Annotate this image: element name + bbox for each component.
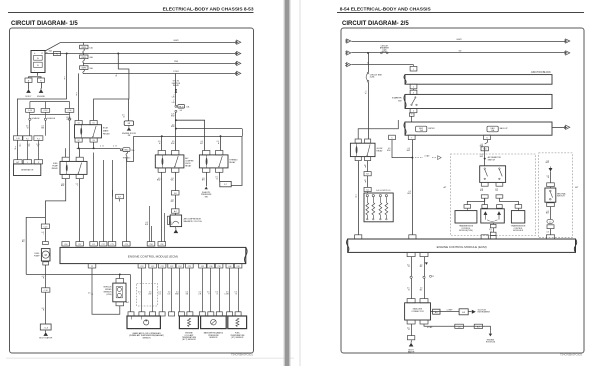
bar1 bottom pin [410, 84, 417, 89]
neutral pin 3 [547, 225, 554, 229]
wire neutral top [550, 171, 552, 182]
svg-text:STARTER: STARTER [392, 97, 402, 100]
svg-text:C-16: C-16 [28, 110, 32, 112]
fuse F2 CMPS 40A [83, 54, 85, 56]
connector A-4 [171, 209, 179, 213]
arrow W1 [235, 40, 241, 44]
svg-text:EARTH: EARTH [408, 351, 415, 354]
svg-text:60WR: 60WR [457, 39, 463, 41]
junction bus 4B [93, 147, 95, 149]
ecm2 top pin 5 [546, 235, 554, 239]
ECM main relay X-4 [75, 125, 102, 138]
connector H-2 [41, 109, 50, 113]
arrow R-in2 [345, 51, 351, 55]
wire engine room JB drop [128, 99, 130, 121]
mode pin R [497, 205, 503, 209]
svg-text:JUNCTION BLOCK: JUNCTION BLOCK [531, 72, 552, 74]
svg-text:C22: C22 [160, 266, 163, 268]
svg-text:F-7: F-7 [224, 184, 227, 186]
vss bottom pin [116, 302, 124, 306]
generator terminal strip [14, 160, 22, 164]
svg-text:PUMP: PUMP [34, 256, 40, 258]
svg-text:C44: C44 [228, 266, 231, 268]
svg-text:X2: X2 [78, 140, 80, 142]
wire neutral to ecm [550, 229, 552, 235]
svg-text:C13: C13 [151, 266, 154, 268]
wire relay pin3 down [78, 142, 80, 148]
svg-text:C94: C94 [64, 244, 67, 246]
wire ecm feeds mid [103, 160, 105, 242]
svg-text:C59: C59 [160, 244, 163, 246]
A T dashed box [450, 154, 535, 236]
svg-text:MODULE B: MODULE B [513, 230, 524, 232]
svg-text:RELAY: RELAY [52, 167, 59, 170]
wire bar1-bar2 [413, 89, 415, 90]
svg-text:CMPS: CMPS [81, 57, 87, 59]
wire W4 [83, 73, 237, 75]
wire dlc right [431, 311, 460, 313]
svg-text:C74: C74 [125, 244, 128, 246]
left diagram border [10, 28, 254, 353]
svg-text:W/L: W/L [171, 180, 174, 182]
ECM bottom pin C34 [207, 264, 215, 268]
wire circle2 down [45, 120, 47, 135]
right page header rule [337, 12, 584, 14]
svg-text:C2: C2 [91, 266, 93, 268]
svg-text:ECM: ECM [103, 127, 108, 129]
arrow R-in3 [345, 63, 351, 67]
fuel pump pin top [43, 242, 49, 245]
ECT sensor box [179, 316, 198, 329]
wire cb drop 2 [368, 82, 370, 139]
fuse EB-10 10A [175, 105, 177, 107]
svg-text:A-2: A-2 [126, 301, 129, 304]
svg-text:FL: FL [37, 58, 39, 60]
connector A-7 [116, 194, 124, 198]
wire bar2-bar3 [413, 113, 415, 117]
wire AC out2 [175, 172, 177, 190]
ECM top pin C57 [76, 242, 84, 246]
svg-text:L: L [140, 293, 141, 295]
fusible link FL box [54, 51, 61, 55]
ECM bottom pin C45 [234, 264, 242, 268]
wire FP out1 [45, 179, 65, 224]
wire F4 down [38, 140, 40, 159]
wire AC pin feeds [161, 136, 163, 150]
dlc pin 4 [420, 320, 428, 324]
AC relay pin1 [158, 151, 165, 155]
ECM box [60, 247, 246, 263]
see arrow [472, 310, 476, 314]
svg-text:C-16: C-16 [68, 110, 72, 112]
ECM bar right page [348, 239, 576, 252]
connector dlc a [433, 309, 440, 314]
wire mode to ecm [493, 228, 495, 232]
connector C-16 fpb [42, 288, 50, 292]
svg-text:B/L: B/L [22, 241, 25, 243]
wire thermo out1 [206, 172, 208, 186]
svg-text:(ECT) SENSOR: (ECT) SENSOR [182, 339, 196, 341]
wire ecm feed 58 [151, 226, 153, 242]
glow relay pin2 [365, 139, 371, 143]
svg-text:C58: C58 [149, 244, 152, 246]
wire v fuse3 to relay [78, 73, 80, 120]
sensor pin row [128, 312, 134, 316]
wire tcm feed [467, 208, 469, 210]
ecm2 top pin 1 [355, 235, 362, 239]
wire fpb down [45, 292, 47, 324]
ecm2 top pin 3 [481, 235, 488, 239]
bar2 top pin [410, 90, 417, 94]
svg-text:C-16: C-16 [44, 110, 48, 112]
svg-text:C33: C33 [201, 266, 204, 268]
wire v B-5 drop [94, 54, 129, 121]
mode out pin [490, 224, 496, 227]
junction w2-b [117, 53, 119, 55]
junction load [411, 157, 413, 159]
neutral pin top [547, 183, 555, 187]
svg-text:C35: C35 [217, 266, 220, 268]
connector H-7 [364, 172, 371, 176]
svg-text:S/GAUGE: S/GAUGE [32, 117, 41, 120]
svg-text:L: L [77, 185, 78, 187]
circuit breaker [381, 52, 383, 54]
ECM bottom pin C13 [149, 264, 157, 268]
wire F8 to A4 [175, 195, 177, 209]
wire clutch area drop a [149, 206, 151, 242]
inhibitor pin R [496, 182, 503, 186]
inhibitor pin L [481, 182, 488, 186]
compressor clutch coil mark [167, 216, 169, 224]
svg-text:60WR: 60WR [174, 40, 180, 42]
wire ecm feed 59 stub [161, 172, 163, 241]
joint connector [40, 324, 51, 330]
glow relay loop [358, 120, 398, 139]
relay X-4 pin2 [90, 121, 97, 125]
svg-text:SENSOR: SENSOR [143, 337, 152, 339]
svg-text:FL: FL [37, 65, 39, 67]
inhibitor pin L2 [481, 195, 488, 198]
wire dlc 2 [424, 257, 426, 299]
svg-text:(VSS): (VSS) [106, 294, 111, 296]
inline circle 3 [69, 112, 71, 118]
fuse backup in bar3 [487, 126, 498, 132]
gutter light line [300, 0, 301, 366]
wire v battery feed down [66, 54, 68, 100]
connector H-3 [65, 109, 74, 113]
ECM top pin C58 [147, 242, 155, 246]
svg-text:4: 4 [413, 111, 414, 113]
ECM top pin C74 [123, 242, 131, 246]
bar1 top pin [410, 66, 417, 71]
svg-text:3-6: 3-6 [180, 110, 183, 112]
svg-text:(CB): (CB) [382, 49, 386, 51]
junction w2-a [66, 53, 68, 55]
inline circle dlc2 [423, 276, 425, 278]
TCM box [455, 211, 477, 223]
thermo relay pin4 [216, 168, 223, 172]
wire W1 main feed [61, 42, 237, 44]
wire to engine ground [41, 82, 43, 88]
svg-text:MODULE(TCM): MODULE(TCM) [459, 230, 473, 232]
svg-text:B/L: B/L [420, 266, 423, 268]
svg-text:4: 4 [113, 146, 114, 148]
svg-text:C34: C34 [209, 266, 212, 268]
wire W2 [45, 53, 237, 55]
fuse F3 CMPS 30A [83, 63, 85, 65]
AC relay pin2 [172, 151, 179, 155]
svg-text:CMPS: CMPS [81, 47, 87, 49]
wire dlc right bus [424, 324, 490, 331]
svg-text:1: 1 [413, 69, 414, 71]
ground body earth [45, 330, 47, 331]
svg-text:G-1: G-1 [366, 190, 369, 192]
svg-text:SW: SW [398, 100, 401, 102]
wire dlc gnd [411, 324, 413, 336]
connector F-7 [220, 181, 231, 186]
svg-text:C23: C23 [170, 266, 173, 268]
ECM top pin C73 [108, 242, 116, 246]
load dashed arrow [415, 157, 423, 159]
junction bus a [161, 135, 163, 137]
MAF IAT sensor box [127, 316, 160, 329]
wire vss return [92, 268, 120, 314]
wire FP out2 [79, 179, 81, 242]
svg-text:B/W: B/W [61, 185, 65, 187]
svg-text:J-4: J-4 [458, 326, 460, 328]
glow relay pin3 [355, 157, 361, 161]
svg-text:MAGNETIC CLUTCH: MAGNETIC CLUTCH [184, 220, 203, 223]
svg-text:SENSOR: SENSOR [209, 337, 218, 339]
svg-text:SW: SW [205, 196, 208, 198]
AC relay pin3 [158, 168, 165, 172]
connector C-16 fp [41, 224, 49, 228]
svg-text:7: 7 [411, 138, 412, 140]
svg-text:B/W: B/W [157, 180, 161, 182]
svg-text:C-10: C-10 [16, 138, 20, 140]
svg-text:EB-6: EB-6 [124, 150, 128, 152]
svg-text:MAIN: MAIN [103, 129, 109, 132]
wire neutral down [550, 207, 552, 220]
ecm2 bottom pin 1 [407, 252, 415, 256]
svg-text:SWITCH: SWITCH [557, 196, 565, 198]
wire jog ST b [176, 128, 242, 130]
svg-text:RELAY: RELAY [173, 84, 180, 87]
junction ST b [175, 128, 177, 130]
AC compressor relay [155, 155, 184, 168]
svg-text:B/L: B/L [420, 289, 423, 291]
svg-text:B/W: B/W [407, 193, 411, 195]
bar3 drop pin a [389, 135, 396, 139]
svg-text:C71: C71 [92, 244, 95, 246]
svg-text:5: 5 [411, 114, 412, 116]
svg-text:COMP: COMP [447, 309, 453, 311]
circuit breaker 2 [367, 72, 369, 74]
shield dashed box [137, 283, 158, 306]
wire glow out right [367, 161, 369, 172]
wire AC out1 [161, 172, 163, 241]
ground clutch [175, 227, 177, 229]
neutral pin bottom [547, 203, 555, 207]
wire circle1 down [29, 120, 31, 135]
arrow W3 [235, 61, 241, 65]
ECM bottom pin C33 [199, 264, 207, 268]
bar3 drop pin c [484, 135, 491, 139]
svg-text:2: 2 [413, 87, 414, 89]
wire A4 to clutch [175, 213, 177, 215]
svg-text:12: 12 [432, 276, 434, 278]
wire fp motor down [45, 265, 47, 288]
svg-text:A-4: A-4 [174, 210, 177, 213]
svg-text:B/W: B/W [171, 126, 175, 128]
svg-text:B/W: B/W [171, 143, 175, 145]
wire jog to x204 [176, 120, 205, 150]
wire bus to FP relay [79, 148, 81, 157]
TCM2 box [511, 211, 524, 223]
wire sensor drop 5 [179, 268, 181, 312]
inline circle dlc1 [410, 276, 412, 278]
left page bottom shadow [6, 358, 294, 359]
connector G-1 [364, 187, 371, 191]
bar3 drop pin b [408, 135, 415, 139]
fuel pump motor [41, 249, 50, 261]
ECM bottom pin C44 [226, 264, 234, 268]
wire dlc 1 [411, 257, 413, 299]
connector T-10 [481, 147, 488, 151]
svg-text:1.25BY: 1.25BY [173, 71, 180, 73]
svg-text:C72: C72 [101, 244, 104, 246]
ECM bottom pin C25 [186, 264, 194, 268]
inhibitor switch box [480, 166, 506, 183]
ECM bottom pin C35 [215, 264, 223, 268]
svg-text:ROOM J/B: ROOM J/B [486, 342, 496, 344]
AC relay pin4 [172, 168, 179, 172]
svg-text:B-9: B-9 [477, 326, 480, 328]
svg-text:CONNECTOR: CONNECTOR [411, 311, 424, 313]
connector row feed wires [29, 102, 31, 109]
wire a7 stub [112, 190, 114, 197]
wire H7 to G1 [367, 176, 369, 188]
wire relay pin4 down [93, 142, 95, 148]
svg-text:S/GAUGE: S/GAUGE [47, 117, 56, 120]
fuse F1 CMPS 10A [83, 42, 85, 45]
svg-text:RELAY: RELAY [185, 164, 192, 167]
connector dlc c [455, 324, 464, 328]
svg-text:G/W: G/W [169, 224, 173, 226]
arrow bar3 out [564, 125, 570, 129]
svg-text:RELAY: RELAY [229, 161, 236, 164]
fuel pump pin bottom [43, 262, 49, 265]
wire inh R branch [499, 198, 518, 204]
thermo relay pin2 [216, 151, 223, 155]
svg-text:G-6 GLOW PLUG: G-6 GLOW PLUG [376, 190, 391, 192]
wire load merge [392, 140, 412, 158]
M T dashed box [539, 153, 573, 238]
wire R3 [351, 64, 413, 66]
wire bar3 out right [552, 127, 566, 129]
wire clutch area drop b [164, 213, 166, 242]
svg-text:12: 12 [41, 53, 43, 55]
fuse box F-5 [23, 136, 32, 141]
dlc pin 1 [407, 299, 415, 303]
ecm2 top pin 2 [409, 235, 416, 239]
svg-text:8: 8 [487, 138, 488, 140]
wire R2 [351, 52, 565, 54]
ECM top pin C72 [99, 242, 107, 246]
svg-text:B/W: B/W [175, 293, 179, 295]
wire bus right drop [232, 136, 243, 185]
svg-text:C57: C57 [78, 244, 81, 246]
svg-text:TS4O70EHOFO3O1: TS4O70EHOFO3O1 [231, 353, 254, 356]
vss top pin [116, 279, 124, 284]
inline circle 2 [45, 112, 47, 118]
svg-text:C45: C45 [236, 266, 239, 268]
junction block bar1 [405, 75, 552, 85]
wire sensor drop 8 [210, 268, 212, 312]
terminal B [25, 78, 32, 82]
svg-text:X3: X3 [93, 140, 95, 142]
arrow W4 [235, 71, 241, 75]
svg-text:B-8: B-8 [462, 312, 465, 314]
wire circle3 down [69, 120, 71, 157]
fuel pump relay pins bottom [62, 174, 69, 178]
wire sensor drop 10 [229, 268, 231, 312]
svg-text:C73: C73 [110, 244, 113, 246]
ECM bottom pin C24 [176, 264, 184, 268]
wire F5 down [27, 140, 29, 159]
glow plug 1 [366, 195, 368, 197]
svg-text:A-7: A-7 [118, 196, 121, 199]
inline circle 1 [29, 112, 31, 118]
svg-text:AIR COMPRESSOR: AIR COMPRESSOR [184, 217, 202, 220]
fuse box F-4 [34, 136, 43, 141]
wire sensor drop 4 [171, 268, 173, 312]
book gutter shade [284, 0, 285, 366]
svg-text:M: M [45, 253, 47, 257]
ECM bottom pin C2 [88, 264, 96, 268]
svg-text:SWITCH: SWITCH [488, 159, 496, 161]
svg-text:(FT) SENSOR: (FT) SENSOR [231, 337, 244, 339]
connector F-8 [171, 191, 179, 195]
wire dlc b out [468, 311, 471, 313]
thermo relay pin3 [203, 168, 210, 172]
wire vss bus end drop [130, 275, 132, 312]
wire battery bottom split [37, 73, 39, 76]
thermo relay pin1 [203, 151, 210, 155]
junction vss [119, 273, 121, 275]
svg-text:F-4: F-4 [37, 138, 40, 140]
fuel pump relay [60, 161, 87, 174]
left page header rule [8, 12, 254, 14]
wire vss bus [26, 274, 130, 276]
inline circle dlc3 [430, 275, 432, 277]
data link connector [405, 303, 431, 320]
svg-text:F-5: F-5 [26, 138, 29, 140]
wire glow top bus [366, 192, 368, 193]
svg-text:BODY EARTH: BODY EARTH [39, 337, 52, 340]
wire sensor drop 6 [189, 268, 191, 312]
relay X-4 pin4 [90, 138, 97, 142]
svg-text:LOAD: LOAD [425, 155, 431, 158]
wire bar3 to ecm [412, 140, 414, 235]
svg-text:J C-8: J C-8 [44, 327, 48, 329]
ecm2 bottom pin 2 [420, 252, 428, 256]
wire left drop [26, 217, 45, 274]
svg-text:B/W: B/W [407, 150, 411, 152]
junction oval [547, 219, 553, 223]
arrow dual pressure [205, 187, 208, 190]
air compressor magnetic clutch [170, 215, 181, 227]
